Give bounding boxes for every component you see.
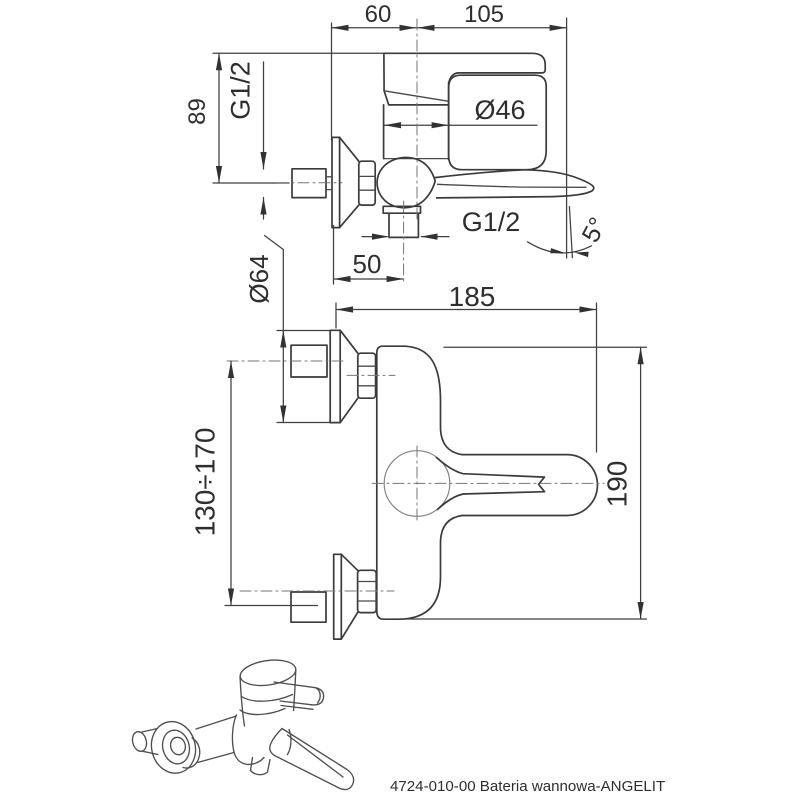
svg-text:105: 105 bbox=[464, 1, 504, 28]
svg-text:G1/2: G1/2 bbox=[226, 61, 256, 120]
svg-text:185: 185 bbox=[449, 281, 496, 312]
svg-text:60: 60 bbox=[365, 1, 392, 28]
svg-text:4724-010-00 Bateria wannowa-AN: 4724-010-00 Bateria wannowa-ANGELIT bbox=[390, 778, 665, 795]
svg-text:89: 89 bbox=[184, 98, 211, 125]
svg-text:Ø64: Ø64 bbox=[244, 254, 274, 303]
svg-text:G1/2: G1/2 bbox=[462, 207, 521, 237]
svg-text:190: 190 bbox=[602, 461, 633, 508]
svg-text:130÷170: 130÷170 bbox=[190, 428, 221, 537]
svg-text:Ø46: Ø46 bbox=[474, 95, 525, 125]
svg-text:50: 50 bbox=[353, 249, 382, 279]
